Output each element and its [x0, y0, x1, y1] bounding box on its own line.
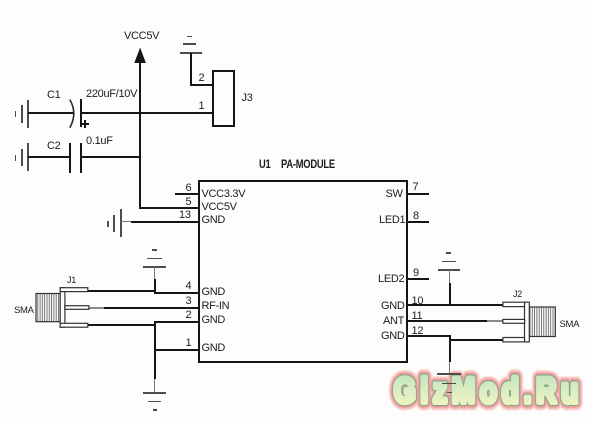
connector J2 label [513, 289, 522, 300]
pin number 9 [413, 268, 419, 279]
ground (sideways) at C2 [27, 143, 29, 171]
pin name GND 2 [202, 315, 226, 326]
capacitor C2 value [86, 136, 113, 147]
pin name RF-IN [202, 301, 230, 312]
pin number 13 [179, 210, 191, 221]
wire J1 pin 2 [88, 324, 156, 326]
wire pin 12 stub [407, 335, 450, 337]
wire VCC5V vertical [139, 62, 141, 209]
wire vertical to bottom ground [154, 321, 156, 379]
capacitor C1 straight plate [80, 99, 82, 127]
pin name GND 12 [381, 331, 405, 342]
pin name GND 13 [202, 215, 226, 226]
wire pin 13 to ground [121, 221, 132, 222]
pin name VCC3.3V [202, 189, 246, 200]
pin number 2 of J3 [199, 73, 205, 84]
pin number 8 [413, 211, 419, 222]
pin number 10 [412, 296, 424, 307]
wire pin 10 to J2 [407, 304, 504, 306]
pin number 2 [186, 310, 192, 321]
module U1 title [259, 159, 271, 170]
J1 barrel [36, 294, 60, 322]
pin name GND 10 [381, 301, 405, 312]
J2 SMA label [560, 319, 580, 330]
J2 spine [525, 302, 530, 342]
pin number 1 [186, 338, 192, 349]
pin name GND 4 [202, 287, 226, 298]
pin number 3 [186, 296, 192, 307]
wire J1 pin 4 [88, 290, 156, 292]
capacitor C2 label [47, 141, 60, 152]
connector J3 body [212, 70, 236, 127]
ground (inverted) above J3 [187, 36, 192, 38]
wire pin 4 stub [154, 292, 199, 294]
wire ground stem to pin 4 wire [154, 266, 155, 280]
pin number 4 [186, 281, 192, 292]
wire C1 left [28, 112, 74, 114]
pin name LED2 [378, 274, 404, 285]
pin name ANT [383, 316, 404, 327]
pin number 12 [412, 326, 424, 337]
wire pin 5 (VCC5V net) [139, 207, 199, 209]
wire pin 6 stub [175, 193, 199, 195]
connector J1 label [67, 275, 76, 286]
power symbol VCC5V label [124, 31, 159, 42]
wire ANT center pin tail [487, 320, 503, 321]
pin name GND 1 [202, 343, 226, 354]
pin number 1 of J3 [199, 101, 205, 112]
wire C2 left [28, 156, 70, 158]
J1 spine [60, 288, 65, 328]
ground (inverted) above J1 wires [152, 249, 157, 251]
J1 top prong [60, 288, 88, 292]
J2 bottom prong [503, 338, 525, 342]
wire pin 1 [154, 349, 199, 351]
capacitor C1 value [86, 89, 137, 100]
connector J3 label [242, 93, 253, 104]
wire pin 9 stub [407, 278, 430, 280]
J1 bottom prong [60, 323, 88, 327]
capacitor C1 label [47, 90, 60, 101]
ground (sideways) at C1 [27, 100, 29, 128]
J1 SMA label [14, 305, 34, 316]
J2 barrel [529, 307, 555, 337]
pin name SW [386, 189, 403, 200]
pin number 5 [186, 197, 192, 208]
wire J3 pin 2 [190, 84, 213, 86]
ground (inverted) above J2 wires [446, 252, 451, 254]
pin number 7 [413, 182, 419, 193]
pin name VCC5V [202, 202, 237, 213]
capacitor C2 right plate [80, 143, 82, 173]
wire RF-IN center pin tail [89, 307, 105, 308]
J1 center pin [65, 306, 89, 310]
capacitor C1 plus sign [81, 123, 89, 125]
ground (sideways) at pin 13 [120, 209, 122, 237]
wire ground stem to pin 10 wire [449, 270, 450, 284]
wire pin 8 stub [407, 221, 430, 223]
wire C1 to J3 pin 1 [80, 112, 213, 114]
wire C2 to VCC5V vertical [80, 156, 140, 158]
ground bottom left [143, 392, 166, 394]
module U1 rectangle [198, 180, 408, 363]
wire J2 pin 12 [449, 339, 504, 341]
wire ANT [407, 320, 488, 322]
wire RF-IN [104, 307, 199, 309]
wire ground stem to J3 pin 2 [190, 53, 192, 85]
pin number 11 [412, 311, 423, 322]
J2 center pin [503, 319, 525, 323]
wire pin 2 stub [154, 321, 199, 323]
wire vertical to bottom right ground [449, 335, 451, 362]
capacitor C2 left plate [69, 143, 71, 173]
wire pin 7 stub [407, 193, 430, 195]
J2 top prong [503, 302, 525, 306]
pin number 6 [186, 183, 192, 194]
ground bottom right [437, 373, 461, 375]
pin name LED1 [379, 215, 405, 226]
